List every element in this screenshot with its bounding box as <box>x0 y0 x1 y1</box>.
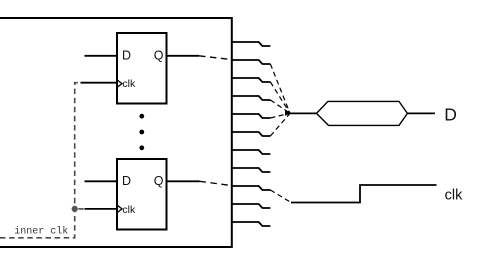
svg-text:D: D <box>122 49 131 63</box>
stub 2 <box>232 60 271 64</box>
dashed wire stub9 to clk trace <box>270 190 291 203</box>
flip-flop FF2 body <box>117 159 167 230</box>
stub 3 <box>232 78 271 82</box>
svg-text:clk: clk <box>122 78 136 90</box>
dashed wire stub4 to node <box>270 100 290 113</box>
wire FF1 clk input <box>81 82 118 84</box>
svg-text:clk: clk <box>445 188 463 204</box>
dashed wire stub2 to node <box>270 64 290 113</box>
wire FF1 D input <box>85 55 118 57</box>
ellipsis dots <box>139 114 144 150</box>
node arrow at D net <box>285 111 291 116</box>
stub 7 <box>232 150 271 154</box>
stub 5 <box>232 114 271 118</box>
junction dot inner clk <box>72 206 78 212</box>
wire FF2 Q to edge (dashed) <box>200 181 232 185</box>
svg-text:inner clk: inner clk <box>14 226 68 238</box>
wire node to bus symbol <box>290 112 317 114</box>
wire FF1 Q output <box>167 55 200 57</box>
stub 9 <box>232 186 271 190</box>
stub 10 <box>232 204 271 208</box>
dashed wire stub6 to node <box>270 113 290 136</box>
svg-text:clk: clk <box>122 204 136 216</box>
flip-flop FF1 body <box>117 33 167 104</box>
FF1 clock wedge <box>117 80 122 87</box>
wire hexagon to D label <box>407 112 435 114</box>
wire FF2 D input <box>85 180 118 182</box>
stub 8 <box>232 168 271 172</box>
stub 6 <box>232 132 271 136</box>
FF2 clock wedge <box>117 205 122 212</box>
stub 4 <box>232 96 271 100</box>
dashed wire stub5 to node <box>270 113 290 118</box>
wire FF1 Q to edge (dashed) <box>199 56 232 60</box>
dashed wire stub3 to node <box>270 82 290 113</box>
stub 11 <box>232 222 271 226</box>
output stubs on module edge <box>232 42 271 226</box>
stub 1 <box>232 42 271 46</box>
wire FF2 clk input <box>85 208 118 210</box>
module box (left edge off-canvas) <box>0 18 232 247</box>
net inner clk (dashed) <box>0 83 85 238</box>
clk waveform <box>291 185 437 203</box>
svg-text:D: D <box>444 105 457 125</box>
bus value hexagon <box>317 101 408 125</box>
svg-text:D: D <box>122 174 131 188</box>
dashed fan-in to D node <box>270 64 290 136</box>
svg-text:Q: Q <box>154 174 164 188</box>
wire FF2 Q output <box>167 180 200 182</box>
svg-text:Q: Q <box>154 49 164 63</box>
